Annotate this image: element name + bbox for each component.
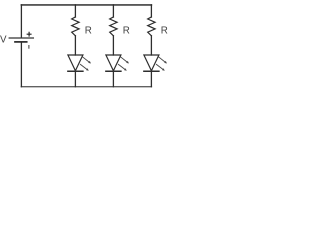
LED D1 emission arrow 2 <box>80 64 88 70</box>
battery V bottom plate (negative, short) <box>15 41 27 43</box>
wire branch2 middle lead (R2 to LED D2) <box>112 36 114 55</box>
wire left lower segment (battery - to bottom rail) <box>20 43 22 87</box>
LED D2 triangle <box>106 55 121 71</box>
LED D1 emission arrow 1 <box>83 57 91 63</box>
wire branch3 middle lead (R3 to LED D3) <box>150 36 152 55</box>
LED D2 emission arrow 2 <box>118 64 126 70</box>
wire left upper segment (top rail to battery +) <box>20 5 22 38</box>
svg-text:R: R <box>123 26 130 37</box>
resistor R1 zigzag <box>72 17 79 36</box>
LED D3 triangle <box>144 55 159 71</box>
wire branch3 top lead (right edge) <box>150 5 152 17</box>
label R1 value <box>85 26 92 37</box>
battery minus mark <box>28 46 30 49</box>
wire bottom rail <box>21 86 151 88</box>
wire branch1 bottom lead <box>74 71 76 87</box>
resistor R3 zigzag <box>148 17 155 36</box>
wire branch1 top lead <box>74 5 76 17</box>
LED D3 emission arrow 1 <box>159 57 167 63</box>
resistor R2 zigzag <box>110 17 117 36</box>
label R2 value <box>123 26 130 37</box>
svg-text:V: V <box>0 35 7 46</box>
svg-text:R: R <box>85 26 92 37</box>
svg-text:R: R <box>161 26 168 37</box>
LED D3 emission arrow 2 <box>156 64 164 70</box>
battery plus sign <box>27 32 31 36</box>
wire top rail <box>21 4 151 6</box>
battery V top plate (positive, long) <box>9 37 33 39</box>
LED D2 cathode bar <box>106 70 121 72</box>
label R3 value <box>161 26 168 37</box>
label V (battery voltage) <box>0 35 7 46</box>
wire branch1 middle lead (R1 to LED D1) <box>74 36 76 55</box>
wire branch2 top lead <box>112 5 114 17</box>
LED D3 cathode bar <box>144 70 159 72</box>
LED D1 cathode bar <box>68 70 83 72</box>
wire branch3 bottom lead <box>150 71 152 87</box>
LED D1 triangle <box>68 55 83 71</box>
LED D2 emission arrow 1 <box>121 57 129 63</box>
wire branch2 bottom lead <box>112 71 114 87</box>
